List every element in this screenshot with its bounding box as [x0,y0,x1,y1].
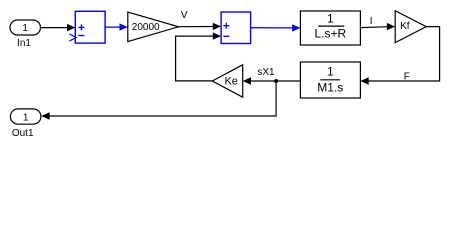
wire 1/(L.s+R) to Kf [360,23,395,30]
transfer fcn block 1/(L.s+R) [300,11,360,45]
transfer fcn block 1/M1.s (mirrored) [300,62,360,98]
junction node [274,79,278,83]
gain block Kf [395,11,426,43]
gain block Ke (mirrored, points left) [212,65,242,97]
svg-text:1: 1 [23,112,29,123]
svg-text:sX1: sX1 [257,67,275,78]
svg-text:20000: 20000 [132,22,160,33]
svg-text:M1.s: M1.s [317,81,343,95]
svg-text:L.s+R: L.s+R [314,27,346,41]
wire junction to Out1 [41,81,276,120]
svg-text:V: V [181,10,188,21]
wire Gain to Sum2 plus input [179,23,222,30]
wire Sum2 to transfer fcn 1/(L.s+R) [251,24,301,31]
unconnected port marker on Sum1 second input [69,34,76,41]
sum block Sum1 [75,11,105,43]
outport Out1 [10,109,41,139]
svg-text:I: I [370,16,373,27]
svg-text:1: 1 [327,65,334,79]
sum block Sum2 [221,12,251,44]
svg-text:Kf: Kf [400,21,410,32]
svg-text:1: 1 [22,23,28,34]
svg-text:Out1: Out1 [12,128,34,139]
wire Kf to 1/M1.s [360,27,439,85]
gain block 20000 [128,12,179,42]
wire Sum1 to Gain 20000 [105,23,128,30]
svg-text:1: 1 [327,11,334,25]
inport In1 [10,20,41,49]
svg-text:In1: In1 [17,38,31,49]
svg-text:F: F [404,72,410,83]
wire In1 to Sum1 [41,24,76,31]
svg-text:Ke: Ke [224,76,237,88]
wire 1/M1.s to junction to Ke [243,77,301,84]
wire Ke output to Sum2 minus input [176,32,222,81]
